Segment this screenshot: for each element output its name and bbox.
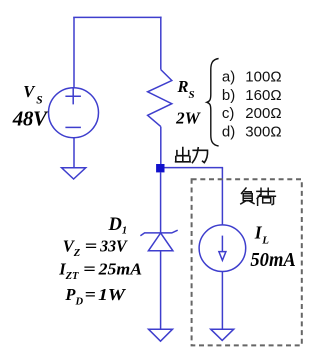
svg-text:RS: RS [177, 77, 195, 101]
svg-text:IL: IL [254, 223, 269, 247]
zener diode D1 [140, 230, 177, 251]
svg-text:b): b) [222, 87, 235, 104]
wire node to load branch [165, 167, 224, 169]
label load (kanji ka) [257, 188, 276, 205]
svg-text:50mA: 50mA [250, 249, 295, 271]
svg-text:48V: 48V [12, 106, 49, 130]
wire current source to ground [221, 272, 223, 330]
svg-text:VS: VS [23, 82, 42, 106]
brace for options [207, 59, 219, 147]
svg-text:200Ω: 200Ω [245, 105, 281, 122]
svg-text:d): d) [222, 123, 235, 140]
current source IL [199, 225, 246, 272]
ground below zener [149, 329, 173, 341]
node output (filled square) [156, 164, 164, 172]
load dashed box [192, 179, 302, 345]
svg-text:VZ=33V: VZ=33V [63, 237, 129, 260]
svg-text:a): a) [222, 69, 235, 86]
svg-text:PD=1W: PD=1W [64, 285, 126, 308]
svg-text:300Ω: 300Ω [245, 123, 281, 140]
voltage source VS [49, 88, 99, 138]
svg-text:160Ω: 160Ω [245, 87, 281, 104]
resistor RS zigzag [148, 70, 172, 127]
wire node down to zener [160, 172, 162, 233]
svg-text:c): c) [222, 105, 235, 122]
wire voltage source to ground [73, 138, 75, 168]
wire top horizontal [73, 16, 161, 18]
ground below voltage source [62, 168, 86, 179]
label load (kanji fu) [241, 188, 254, 204]
wire down to resistor [160, 17, 162, 70]
svg-text:2W: 2W [175, 108, 202, 127]
label output (kanji ryoku) [192, 148, 207, 163]
svg-text:IZT=25mA: IZT=25mA [58, 259, 142, 282]
wire down into load box [221, 168, 223, 225]
svg-text:D1: D1 [108, 215, 128, 237]
wire zener to ground [160, 251, 162, 329]
svg-text:100Ω: 100Ω [245, 69, 281, 86]
label output (kanji de) [176, 148, 191, 162]
wire from voltage source top up [73, 17, 75, 88]
wire resistor to output node [160, 127, 162, 164]
ground below current source [211, 329, 234, 340]
